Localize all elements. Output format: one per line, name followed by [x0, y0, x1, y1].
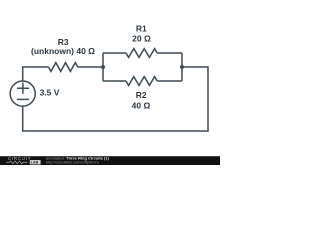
resistor R1 — [126, 49, 157, 58]
wire node A risers (parallel block left side) — [102, 53, 104, 81]
wire top branch lead left — [103, 52, 126, 54]
wire node B to right edge and down to bottom — [23, 67, 208, 131]
svg-text:CIRCUIT: CIRCUIT — [8, 156, 31, 161]
wire top branch lead right — [157, 52, 182, 54]
svg-text:R1: R1 — [136, 23, 147, 33]
node A junction dot — [101, 65, 105, 69]
svg-text:3.5 V: 3.5 V — [40, 88, 60, 98]
svg-text:(unknown) 40 Ω: (unknown) 40 Ω — [31, 46, 95, 56]
footer bar — [0, 156, 220, 165]
footer logo resistor zigzag — [6, 161, 28, 164]
V1 minus sign — [17, 98, 29, 100]
resistor R2 — [126, 77, 157, 86]
wire from V1 top up and right to R3 — [23, 67, 49, 81]
wire bottom branch lead left — [103, 80, 126, 82]
footer logo LAB box — [30, 160, 41, 164]
svg-text:R2: R2 — [136, 90, 147, 100]
voltage source V1 circle — [10, 81, 35, 106]
svg-text:40 Ω: 40 Ω — [132, 100, 151, 110]
wire bottom branch lead right — [157, 80, 182, 82]
svg-text:20 Ω: 20 Ω — [132, 34, 151, 44]
resistor R3 — [49, 63, 78, 72]
V1 plus sign — [17, 83, 29, 94]
node B junction dot — [180, 65, 184, 69]
wire parallel block right side — [181, 53, 183, 81]
wire R3 to node A — [78, 66, 103, 68]
svg-text:http://circuitlab.com/c4tp5m7e: http://circuitlab.com/c4tp5m7e — [46, 160, 100, 165]
svg-text:LAB: LAB — [31, 161, 39, 165]
